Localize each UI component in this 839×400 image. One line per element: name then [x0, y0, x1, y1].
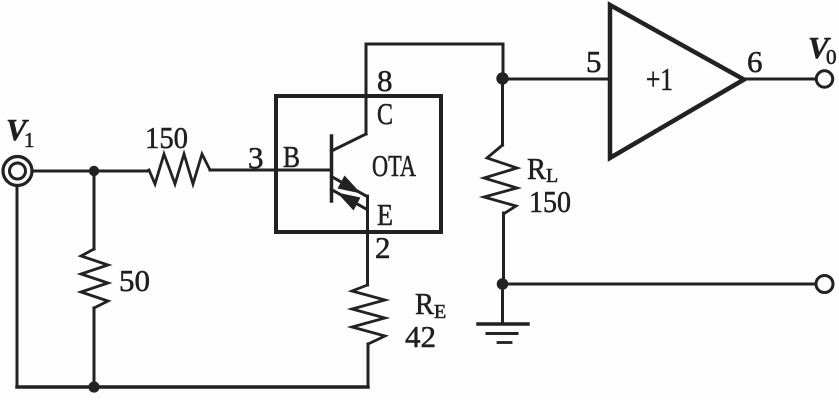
op-amp OTA box U1: [276, 96, 441, 232]
wire: node down to RL: [501, 79, 504, 145]
svg-text:C: C: [377, 96, 393, 131]
svg-text:150: 150: [529, 184, 571, 219]
svg-text:50: 50: [119, 263, 150, 298]
svg-text:8: 8: [377, 63, 393, 98]
label V0: [808, 30, 837, 69]
terminal output return: [816, 276, 833, 293]
transistor Q1 base bar: [330, 136, 334, 201]
resistor 50: [81, 249, 108, 308]
node junction at input divider: [89, 166, 99, 176]
wire: resistor 150 to OTA box pin 3 (B): [210, 169, 277, 172]
terminal V0 output: [816, 71, 832, 87]
wire: base lead inside box to transistor bar: [277, 169, 331, 172]
svg-text:R: R: [527, 151, 546, 186]
wire: V1 terminal to resistor 150: [32, 170, 149, 173]
resistor RE 42: [352, 285, 385, 344]
svg-text:3: 3: [248, 140, 264, 175]
emitter arrow inward: [337, 193, 361, 211]
svg-text:1: 1: [24, 128, 35, 152]
svg-text:42: 42: [405, 319, 436, 354]
wire: node to buffer input pin 5: [503, 78, 610, 81]
svg-text:0: 0: [826, 45, 837, 69]
terminal V1 input (double circle): [3, 157, 32, 186]
transistor Q1 collector lead: [332, 134, 367, 151]
node junction pin 8 / pin 5 / RL: [496, 72, 508, 84]
svg-text:R: R: [415, 286, 434, 321]
wire: RL to ground node: [502, 213, 505, 284]
node junction ground / output return: [497, 278, 509, 290]
wire: V1 terminal down left side: [16, 186, 19, 387]
wire: RE bottom to bottom rail: [367, 344, 370, 387]
wire: bottom rail: [17, 385, 368, 389]
wire: resistor 50 bottom to bottom rail: [93, 308, 96, 387]
svg-text:+1: +1: [646, 61, 673, 97]
svg-text:5: 5: [586, 44, 602, 79]
transistor Q1 emitter lead upper: [332, 177, 368, 197]
transistor Q1 emitter lead lower: [332, 190, 368, 210]
wire: emitter pin 2 down to RE: [366, 196, 369, 285]
resistor 50 (shunt to ground) wire top: [93, 171, 96, 249]
svg-text:6: 6: [747, 44, 763, 79]
node junction bottom rail: [88, 381, 99, 392]
label V1: [6, 112, 35, 152]
wire: ground node down: [501, 284, 504, 323]
wire: ground node to lower output terminal: [503, 283, 816, 286]
svg-text:E: E: [377, 197, 393, 232]
wire: collector pin 8 up and over to node: [366, 44, 503, 134]
svg-text:2: 2: [375, 230, 391, 265]
emitter arrow outward: [338, 176, 362, 194]
resistor RL 150: [484, 145, 517, 213]
resistor 150 (series input): [149, 154, 210, 184]
label RL: [527, 151, 558, 187]
ground symbol: [478, 322, 528, 326]
svg-text:150: 150: [145, 120, 188, 155]
wire: buffer output pin 6 to V0 terminal: [744, 78, 816, 81]
op-amp buffer U2 (+1): [610, 5, 744, 158]
svg-text:B: B: [283, 139, 300, 174]
svg-text:OTA: OTA: [372, 148, 416, 183]
label RE: [415, 286, 446, 323]
